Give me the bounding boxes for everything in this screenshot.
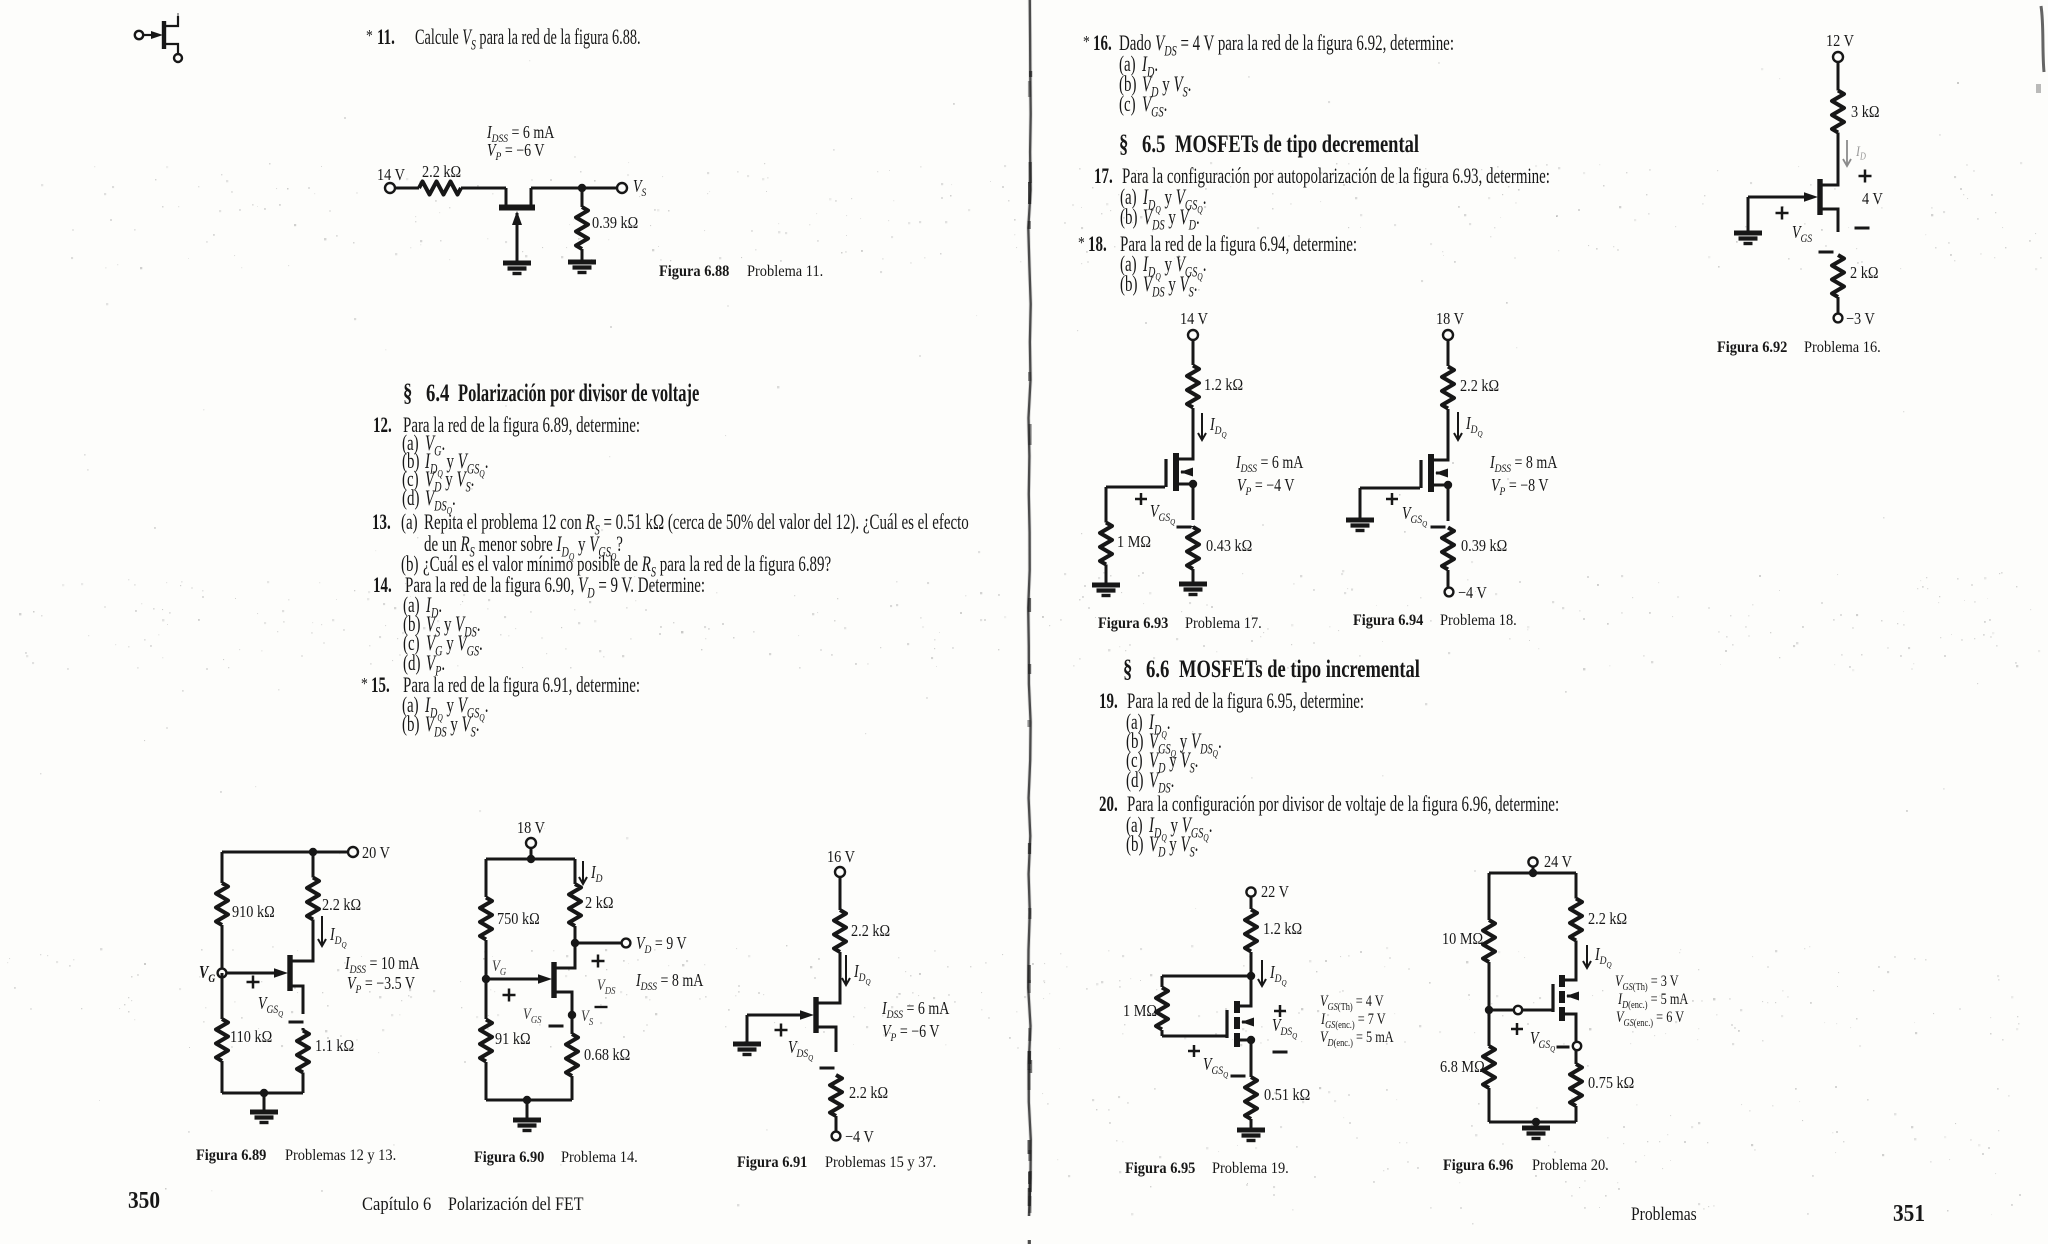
MOSFET substrate arrow (fig 6.93)	[1181, 471, 1193, 474]
MOSFET drain lead (fig 6.95)	[1240, 1002, 1251, 1006]
gate drop to ground (fig 6.94)	[1359, 488, 1362, 520]
terminal 22 V (fig 6.95)	[1246, 887, 1255, 896]
minus sign (VGS fig 6.89)	[289, 1021, 304, 1024]
svg-text:Problema 14.: Problema 14.	[561, 1148, 638, 1166]
resistor 0.68 kOhm	[571, 1015, 574, 1033]
resistor 2.2 kOhm (fig 6.96)	[1570, 899, 1582, 941]
plus sign gate (fig 6.95)	[1188, 1050, 1200, 1053]
wire to 20V terminal	[313, 851, 349, 854]
svg-text:91 kΩ: 91 kΩ	[495, 1030, 531, 1048]
figure 6.89 top wire	[222, 851, 313, 854]
minus sign (VGS fig 6.90)	[549, 1025, 564, 1028]
plus sign (VGS fig 6.89)	[247, 981, 260, 984]
svg-text:6.4: 6.4	[426, 378, 449, 406]
minus sign VDS (fig 6.95)	[1273, 1051, 1288, 1054]
svg-text:0.75 kΩ: 0.75 kΩ	[1588, 1074, 1634, 1092]
svg-text:Para la red de la figura 6.90,: Para la red de la figura 6.90, VD = 9 V.…	[405, 573, 705, 601]
ground stem (fig 6.90)	[526, 1100, 529, 1120]
terminal 20 V	[348, 847, 358, 857]
left branch lower (fig 6.96)	[1488, 1010, 1491, 1044]
svg-text:110 kΩ: 110 kΩ	[230, 1028, 272, 1046]
svg-text:Figura 6.96: Figura 6.96	[1443, 1156, 1514, 1174]
svg-text:Figura 6.95: Figura 6.95	[1125, 1159, 1196, 1177]
svg-text:351: 351	[1893, 1200, 1925, 1226]
resistor 2.2 kOhm (drain fig 6.89)	[312, 852, 315, 875]
svg-text:2.2 kΩ: 2.2 kΩ	[849, 1084, 888, 1102]
source tap terminal circle (fig 6.96)	[1573, 1042, 1581, 1050]
MOSFET source lead (fig 6.94)	[1434, 485, 1448, 521]
plus sign (fig 6.94)	[1386, 498, 1398, 501]
JFET drain lead (fig 6.91)	[818, 1000, 840, 1003]
bottom wire (fig 6.96)	[1489, 1121, 1576, 1124]
JFET channel bar (fig 6.89)	[287, 955, 292, 991]
svg-text:(b): (b)	[1126, 832, 1143, 857]
JFET source lead (fig 6.90)	[556, 992, 572, 1015]
resistor 1.1 kOhm (source fig 6.89)	[297, 1031, 309, 1073]
svg-text:2.2 kΩ: 2.2 kΩ	[851, 922, 890, 940]
svg-text:16 V: 16 V	[827, 848, 855, 866]
ground (gate of fig 6.88 JFET)	[503, 261, 531, 266]
JFET channel bar (fig 6.91)	[813, 997, 818, 1033]
minus superscript after VS	[595, 1006, 608, 1008]
figure 6.88 input terminal	[385, 183, 395, 193]
svg-text:*: *	[1078, 234, 1085, 253]
svg-text:Problema 19.: Problema 19.	[1212, 1159, 1289, 1177]
svg-text:(c): (c)	[1119, 92, 1136, 117]
svg-text:Para la configuración por divi: Para la configuración por divisor de vol…	[1127, 792, 1559, 817]
plus sign gate (fig 6.92)	[1776, 212, 1789, 215]
minus sign VDS (fig 6.92)	[1855, 227, 1870, 230]
gate wire with arrow (fig 6.92)	[1748, 196, 1804, 199]
svg-text:350: 350	[128, 1187, 160, 1213]
feedback wire top (fig 6.95)	[1162, 975, 1251, 978]
current arrow IDQ (fig 6.94)	[1457, 412, 1459, 440]
ground (fig 6.89)	[250, 1110, 278, 1115]
JFET source lead (fig 6.92)	[1822, 209, 1838, 232]
svg-text:(a): (a)	[401, 510, 418, 535]
wire down from 22V	[1250, 897, 1253, 909]
ground stem (fig 6.89)	[263, 1093, 266, 1112]
svg-text:2 kΩ: 2 kΩ	[1850, 264, 1878, 282]
current arrow IDQ (fig 6.91)	[845, 955, 847, 985]
current arrow IDQ (fig 6.96)	[1586, 945, 1588, 968]
svg-text:13.: 13.	[372, 510, 391, 535]
svg-text:18 V: 18 V	[517, 819, 545, 837]
svg-text:14 V: 14 V	[1180, 310, 1208, 328]
svg-text:−4 V: −4 V	[845, 1128, 874, 1146]
MOSFET channel dashed bar (fig 6.95)	[1234, 1001, 1240, 1013]
svg-text:750 kΩ: 750 kΩ	[497, 910, 540, 928]
terminal -4 V (fig 6.94)	[1445, 588, 1454, 597]
svg-text:12.: 12.	[373, 413, 392, 438]
resistor 2.2 kOhm (fig 6.94)	[1442, 367, 1454, 409]
feedback wire bottom to gate (fig 6.95)	[1162, 1035, 1226, 1038]
svg-text:Problemas 12 y 13.: Problemas 12 y 13.	[285, 1146, 396, 1164]
minus sign source (fig 6.92)	[1819, 251, 1834, 254]
gate wire with arrow (fig 6.91)	[747, 1014, 800, 1017]
svg-text:Figura 6.93: Figura 6.93	[1098, 614, 1169, 632]
wire input to resistor	[395, 187, 419, 190]
gate wire (fig 6.96)	[1489, 1009, 1552, 1012]
svg-text:2.2 kΩ: 2.2 kΩ	[1460, 377, 1499, 395]
svg-text:(d): (d)	[403, 651, 420, 676]
svg-text:Polarización por divisor de vo: Polarización por divisor de voltaje	[458, 379, 699, 407]
bottom wire (fig 6.90)	[486, 1099, 572, 1102]
svg-text:2.2 kΩ: 2.2 kΩ	[422, 163, 461, 181]
ground (below RS fig 6.88)	[568, 260, 596, 265]
svg-text:0.68 kΩ: 0.68 kΩ	[584, 1046, 630, 1064]
svg-text:−3 V: −3 V	[1846, 310, 1875, 328]
current arrow ID (fig 6.90)	[582, 861, 584, 884]
svg-text:1.1 kΩ: 1.1 kΩ	[315, 1037, 354, 1055]
resistor 2.2 kOhm lower (fig 6.91)	[830, 1075, 842, 1116]
MOSFET drain lead (fig 6.96)	[1565, 976, 1576, 980]
svg-text:Figura 6.94: Figura 6.94	[1353, 611, 1424, 629]
resistor 910 kOhm	[221, 852, 224, 875]
svg-text:6.6: 6.6	[1146, 654, 1169, 682]
svg-text:6.8 MΩ: 6.8 MΩ	[1440, 1058, 1485, 1076]
JFET channel bar (fig 6.88)	[499, 205, 535, 211]
page binding line	[1028, 0, 1031, 1216]
terminal 18 V (fig 6.94)	[1443, 330, 1453, 340]
svg-text:−4 V: −4 V	[1458, 584, 1487, 602]
resistor 750 kOhm	[485, 859, 488, 897]
svg-text:16.: 16.	[1093, 31, 1112, 56]
svg-text:MOSFETs de tipo incremental: MOSFETs de tipo incremental	[1179, 654, 1420, 682]
svg-text:Para la red de la figura 6.91,: Para la red de la figura 6.91, determine…	[403, 673, 640, 698]
minus sign (fig 6.93)	[1177, 526, 1192, 529]
svg-text:Calcule VS para la red de la f: Calcule VS para la red de la figura 6.88…	[415, 25, 641, 53]
gate wire with arrow (fig 6.89)	[226, 972, 276, 975]
svg-text:Figura 6.88: Figura 6.88	[659, 262, 730, 280]
ground right (fig 6.93)	[1179, 582, 1207, 587]
svg-text:910 kΩ: 910 kΩ	[232, 903, 275, 921]
node junction at source/RS	[578, 184, 586, 192]
node VD junction	[571, 939, 579, 947]
gate wire (fig 6.93)	[1106, 486, 1165, 489]
svg-text:Para la red de la figura 6.94,: Para la red de la figura 6.94, determine…	[1120, 232, 1357, 257]
ground (fig 6.96)	[1522, 1126, 1550, 1131]
svg-text:18 V: 18 V	[1436, 310, 1464, 328]
MOSFET gate bar (fig 6.96)	[1551, 984, 1554, 1012]
gate drop to ground (fig 6.92)	[1747, 197, 1750, 233]
gate drop wire to ground (fig 6.91)	[746, 1015, 749, 1044]
resistor 0.51 kOhm (fig 6.95)	[1245, 1077, 1257, 1119]
svg-text:Problema 18.: Problema 18.	[1440, 611, 1517, 629]
wire down (fig 6.93)	[1192, 340, 1195, 365]
ground (fig 6.92)	[1734, 231, 1762, 236]
resistor 6.8 MOhm (fig 6.96)	[1483, 1046, 1495, 1088]
terminal -3 V	[1834, 314, 1843, 323]
node VS junction (fig 6.90)	[568, 1011, 576, 1019]
minus sign (fig 6.94)	[1431, 526, 1446, 529]
current arrow IDQ (fig 6.89)	[321, 916, 323, 946]
svg-text:14.: 14.	[373, 573, 392, 598]
svg-text:Problemas: Problemas	[1631, 1204, 1697, 1225]
gate node junction (fig 6.90)	[482, 975, 490, 983]
svg-text:2 kΩ: 2 kΩ	[585, 894, 613, 912]
wire JFET source to output	[530, 188, 533, 205]
MOSFET substrate arrow (fig 6.95)	[1242, 1021, 1251, 1024]
terminal -4 V (fig 6.91)	[832, 1132, 841, 1141]
MOSFET drain lead (fig 6.93)	[1179, 455, 1193, 459]
terminal 12 V	[1833, 52, 1843, 62]
svg-text:Capítulo 6: Capítulo 6	[362, 1193, 431, 1214]
source node junction (fig 6.93)	[1189, 480, 1197, 488]
MOSFET substrate arrow (fig 6.96)	[1567, 995, 1576, 998]
resistor 91 kOhm	[485, 979, 488, 1019]
JFET source lead (fig 6.89)	[292, 986, 303, 1014]
terminal 24 V (fig 6.96)	[1528, 857, 1537, 866]
node junction top (fig 6.89)	[309, 848, 317, 856]
svg-text:Polarización del FET: Polarización del FET	[448, 1193, 584, 1215]
svg-text:1 MΩ: 1 MΩ	[1117, 533, 1151, 551]
JFET source lead (fig 6.91)	[818, 1027, 836, 1052]
ground (fig 6.90)	[513, 1118, 541, 1123]
MOSFET channel bar (fig 6.93)	[1173, 453, 1179, 491]
MOSFET gate bar (fig 6.93)	[1164, 459, 1167, 487]
wire gate node down to 1 MOhm	[1105, 487, 1108, 520]
minus sign source (fig 6.96)	[1557, 1046, 1570, 1049]
JFET channel bar (fig 6.92)	[1817, 179, 1822, 215]
top wire (fig 6.96)	[1489, 872, 1576, 875]
resistor 10 MOhm (fig 6.96)	[1483, 920, 1495, 962]
svg-text:Problema 16.: Problema 16.	[1804, 338, 1881, 356]
svg-text:3 kΩ: 3 kΩ	[1851, 103, 1879, 121]
plus sign VDS (fig 6.95)	[1274, 1010, 1286, 1013]
resistor 2.2 kOhm (series input)	[419, 182, 461, 195]
svg-text:*: *	[361, 675, 368, 694]
current arrow ID (fig 6.92, faint)	[1846, 140, 1848, 166]
current arrow IDQ (fig 6.93)	[1201, 413, 1203, 440]
svg-text:0.51 kΩ: 0.51 kΩ	[1264, 1086, 1310, 1104]
svg-text:§: §	[1123, 654, 1132, 682]
svg-text:Problemas 15 y 37.: Problemas 15 y 37.	[825, 1153, 936, 1171]
left branch lower wire (fig 6.89)	[221, 973, 224, 1014]
wire into JFET drain (fig 6.91)	[839, 960, 842, 1003]
right branch upper (fig 6.96)	[1575, 873, 1578, 897]
wire down (fig 6.94)	[1447, 340, 1450, 366]
svg-text:2.2 kΩ: 2.2 kΩ	[1588, 910, 1627, 928]
gate node junction (fig 6.96)	[1485, 1006, 1493, 1014]
svg-text:14 V: 14 V	[377, 166, 405, 184]
gate wire with arrow (fig 6.90)	[486, 978, 538, 981]
svg-text:Figura 6.89: Figura 6.89	[196, 1146, 267, 1164]
JFET drain lead (fig 6.90)	[556, 945, 575, 968]
minus sign (fig 6.91)	[820, 1067, 835, 1070]
resistor 1 MOhm (fig 6.95)	[1156, 988, 1168, 1030]
source node junction (fig 6.94)	[1444, 481, 1452, 489]
svg-text:18.: 18.	[1088, 232, 1107, 257]
resistor 2 kOhm (drain fig 6.90)	[574, 859, 577, 883]
JFET drain lead (fig 6.92)	[1822, 182, 1838, 185]
svg-text:24 V: 24 V	[1544, 853, 1572, 871]
resistor 0.43 kOhm (fig 6.93)	[1187, 527, 1199, 569]
svg-text:(d): (d)	[402, 486, 419, 511]
ground stem (fig 6.96)	[1535, 1122, 1538, 1128]
MOSFET channel bar (fig 6.94)	[1428, 454, 1434, 492]
MOSFET channel dashed bar (fig 6.96)	[1559, 975, 1565, 987]
svg-text:§: §	[1119, 129, 1128, 157]
top node junction (fig 6.96)	[1529, 869, 1537, 877]
svg-text:Figura 6.92: Figura 6.92	[1717, 338, 1787, 356]
svg-text:Problema 11.: Problema 11.	[747, 262, 823, 280]
plus sign VDS (fig 6.92)	[1859, 175, 1872, 178]
JFET drain lead (fig 6.89)	[292, 948, 313, 961]
terminal 14 V	[1188, 330, 1198, 340]
node VG terminal circle	[218, 969, 227, 978]
source node junction (fig 6.95)	[1247, 1036, 1255, 1044]
JFET channel bar (fig 6.90)	[551, 962, 556, 998]
svg-text:20.: 20.	[1099, 792, 1118, 817]
resistor 2 kOhm (fig 6.92)	[1832, 255, 1844, 297]
svg-text:17.: 17.	[1094, 164, 1113, 189]
svg-text:Para la configuración por auto: Para la configuración por autopolarizaci…	[1122, 164, 1550, 189]
svg-text:12 V: 12 V	[1826, 32, 1854, 50]
current arrow IDQ (fig 6.95)	[1261, 960, 1263, 986]
svg-text:Figura 6.91: Figura 6.91	[737, 1153, 807, 1171]
top node junction (fig 6.90)	[527, 855, 535, 863]
terminal 18 V	[526, 838, 536, 848]
resistor 1.2 kOhm (fig 6.93)	[1187, 366, 1199, 408]
top wire (fig 6.90)	[486, 858, 575, 861]
MOSFET substrate arrow (fig 6.94)	[1436, 472, 1448, 475]
svg-text:§: §	[403, 378, 412, 406]
bottom node junction (fig 6.89)	[260, 1089, 268, 1097]
ground left (fig 6.93)	[1092, 583, 1120, 588]
svg-text:19.: 19.	[1099, 689, 1118, 714]
svg-text:(b): (b)	[402, 712, 419, 737]
supply stem (fig 6.90)	[530, 848, 533, 859]
plus sign VDS (fig 6.90)	[592, 960, 605, 963]
plus sign (fig 6.93)	[1135, 498, 1147, 501]
svg-text:1.2 kΩ: 1.2 kΩ	[1263, 920, 1302, 938]
resistor 1 MOhm (fig 6.93)	[1100, 523, 1112, 565]
resistor 0.39 kOhm (fig 6.94)	[1442, 528, 1454, 570]
svg-text:6.5: 6.5	[1142, 129, 1165, 157]
terminal 16 V	[835, 867, 845, 877]
bottom wire (fig 6.89)	[222, 1092, 303, 1095]
svg-text:Para la red de la figura 6.95,: Para la red de la figura 6.95, determine…	[1127, 689, 1364, 714]
svg-text:15.: 15.	[371, 673, 390, 698]
svg-text:Para la red de la figura 6.89,: Para la red de la figura 6.89, determine…	[403, 413, 640, 438]
MOSFET source lead (fig 6.96)	[1565, 1014, 1576, 1041]
ground (fig 6.94)	[1346, 518, 1374, 523]
resistor 3 kOhm (fig 6.92)	[1832, 91, 1844, 133]
JFET gate lead with arrow (from ground)	[516, 213, 519, 263]
wire down from 12V	[1837, 62, 1840, 88]
svg-text:0.39 kΩ: 0.39 kΩ	[1461, 537, 1507, 555]
left branch upper (fig 6.96)	[1488, 873, 1491, 918]
ground (fig 6.95)	[1237, 1128, 1265, 1133]
plus sign (fig 6.91)	[775, 1029, 788, 1032]
wire VD node down to JFET drain	[574, 943, 577, 968]
gate wire (fig 6.94)	[1360, 487, 1420, 490]
output terminal VS	[617, 183, 627, 193]
svg-text:*: *	[1083, 33, 1090, 52]
svg-text:20 V: 20 V	[362, 844, 390, 862]
drain node junction (fig 6.95)	[1247, 972, 1255, 980]
wire resistor to JFET drain	[461, 187, 506, 190]
svg-text:MOSFETs de tipo decremental: MOSFETs de tipo decremental	[1175, 129, 1419, 157]
MOSFET source lead (fig 6.95)	[1240, 1040, 1251, 1076]
svg-text:10 MΩ: 10 MΩ	[1442, 930, 1483, 948]
svg-text:1.2 kΩ: 1.2 kΩ	[1204, 376, 1243, 394]
wire source to RS (fig 6.96)	[1575, 1050, 1578, 1063]
decorative page-corner JFET icon	[135, 31, 143, 39]
minus sign gate (fig 6.95)	[1231, 1075, 1246, 1078]
resistor 0.75 kOhm (fig 6.96)	[1570, 1064, 1582, 1106]
svg-text:(d): (d)	[1126, 768, 1143, 793]
MOSFET source lead (fig 6.93)	[1179, 484, 1193, 520]
svg-text:VD = 9 V: VD = 9 V	[636, 935, 687, 957]
plus sign gate (fig 6.96)	[1511, 1028, 1523, 1031]
plus sign gate (fig 6.90)	[503, 994, 516, 997]
svg-text:11.: 11.	[377, 25, 395, 50]
svg-text:0.43 kΩ: 0.43 kΩ	[1206, 537, 1252, 555]
terminal VD	[622, 939, 631, 948]
svg-text:22 V: 22 V	[1261, 883, 1289, 901]
svg-text:4 V: 4 V	[1862, 190, 1883, 208]
supply stem (fig 6.96)	[1532, 867, 1535, 873]
svg-text:(b): (b)	[1120, 205, 1137, 230]
gate tap terminal circle (fig 6.96)	[1514, 1006, 1522, 1014]
MOSFET gate bar (fig 6.95)	[1225, 1010, 1228, 1038]
svg-text:0.39 kΩ: 0.39 kΩ	[592, 214, 638, 232]
svg-text:Problema 17.: Problema 17.	[1185, 614, 1262, 632]
svg-text:(b): (b)	[1120, 272, 1137, 297]
wire 16V down (fig 6.91)	[839, 877, 842, 910]
resistor 0.39 kOhm (source)	[581, 188, 584, 205]
resistor 1.2 kOhm (fig 6.95)	[1245, 910, 1257, 952]
svg-text:1 MΩ: 1 MΩ	[1123, 1002, 1157, 1020]
wire to VD terminal	[575, 942, 622, 945]
svg-text:*: *	[366, 27, 373, 46]
svg-text:Figura 6.90: Figura 6.90	[474, 1148, 545, 1166]
MOSFET gate bar (fig 6.94)	[1419, 460, 1422, 488]
bottom node junction (fig 6.96)	[1532, 1118, 1540, 1126]
svg-text:Problema 20.: Problema 20.	[1532, 1156, 1609, 1174]
svg-text:2.2 kΩ: 2.2 kΩ	[322, 896, 361, 914]
bottom node (fig 6.90)	[523, 1096, 531, 1104]
ground (fig 6.91)	[733, 1042, 761, 1047]
resistor 2.2 kOhm upper (fig 6.91)	[834, 910, 846, 952]
resistor 110 kOhm	[216, 1019, 228, 1061]
MOSFET drain lead (fig 6.94)	[1434, 456, 1448, 460]
